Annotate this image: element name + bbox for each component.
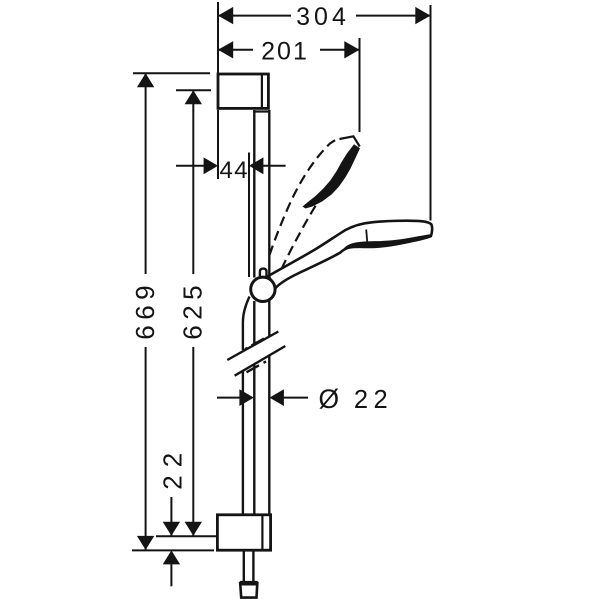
bottom wall bracket inner line (261, 515, 263, 550)
hose nut at bottom (240, 583, 257, 597)
pipe break lower dash (247, 365, 260, 372)
top wall bracket inner line (261, 74, 263, 108)
svg-text:Ø: Ø (318, 384, 339, 414)
slide bar right edge lower (268, 356, 270, 515)
dimension 304 right arrow (415, 7, 430, 24)
dimension 44 left leader (176, 165, 205, 167)
shower hose below bottom bracket right (252, 550, 254, 583)
bottom wall bracket (217, 515, 270, 550)
svg-text:44: 44 (219, 157, 249, 184)
top wall bracket (218, 74, 268, 108)
dimension 304 left arrow (218, 7, 233, 24)
holder knob (260, 269, 267, 278)
slide bar left edge mid (253, 301, 255, 345)
raised head top edge (340, 136, 360, 146)
raised head dark spray face (303, 144, 361, 208)
dimension 625 line (192, 90, 194, 274)
dimension 44 left arrow (204, 157, 218, 174)
extension line x=249 for dim 44 (248, 153, 250, 278)
dimension 22 lower tail (170, 564, 172, 586)
holder circle (251, 277, 275, 301)
dimension diameter 22 left arrow (239, 389, 253, 406)
dimension 22 lower arrow (163, 550, 180, 564)
dimension 669 top arrow (137, 73, 154, 87)
hose nut top band (240, 581, 258, 586)
extension line y=73.3 top left (133, 72, 210, 74)
pipe break upper dot (245, 348, 248, 349)
dimension diameter 22 right leader (283, 397, 308, 399)
extension line y=536 rail bottom (156, 535, 217, 537)
pipe break upper diagonal (227, 332, 278, 361)
shower hose below bottom bracket left (243, 550, 245, 583)
svg-text:625: 625 (178, 280, 208, 340)
slide bar right edge upper (268, 110, 270, 337)
hand shower joint tick (366, 230, 367, 242)
pipe break lower dot (264, 361, 267, 362)
pipe break upper dash (252, 339, 265, 346)
svg-text:669: 669 (130, 280, 160, 340)
dimension 22 upper line (170, 497, 172, 536)
hand shower body (269, 221, 432, 289)
svg-text:201: 201 (261, 37, 309, 65)
dimension 304 line (218, 15, 291, 17)
dashed raised handle right arc (282, 173, 338, 270)
extension line left wall x=218 below bracket (217, 110, 219, 179)
dimension 44 right arrow (249, 157, 263, 174)
svg-text:304: 304 (296, 3, 350, 31)
extension line x=359.5 for dim 201 (359, 38, 361, 132)
dimension 669 bottom arrow (137, 536, 154, 550)
dimension diameter 22 right arrow (270, 389, 284, 406)
dimension 669 line (145, 73, 147, 274)
slide bar left edge lower (253, 365, 255, 516)
pipe break lower diagonal (235, 346, 286, 376)
extension line y=550.4 bracket bottom (132, 549, 214, 551)
extension line y=90.3 rail top (176, 89, 211, 91)
svg-text:22: 22 (158, 445, 188, 490)
dimension 201 right arrow (344, 41, 359, 58)
dimension diameter 22 left leader (217, 397, 241, 399)
dimension 201 line (218, 49, 253, 51)
dimension 44 right leader (263, 165, 286, 167)
extension line x=430.5 for dim 304 (430, 5, 432, 221)
slide bar left edge upper (253, 110, 255, 278)
extension line left wall x=218 top (217, 2, 219, 73)
svg-text:22: 22 (354, 386, 393, 414)
dimension 201 left arrow (218, 41, 233, 58)
dashed raised handle left arc (270, 138, 339, 255)
dimension 625 bottom arrow (185, 522, 202, 536)
dimension 22 upper arrow (163, 522, 180, 536)
slide bar top step (253, 110, 270, 112)
dimension 625 top arrow (185, 90, 202, 104)
shower hose left edge lower (242, 371, 244, 516)
hand shower dark spray face (340, 234, 431, 253)
shower hose curve from holder (243, 297, 250, 351)
